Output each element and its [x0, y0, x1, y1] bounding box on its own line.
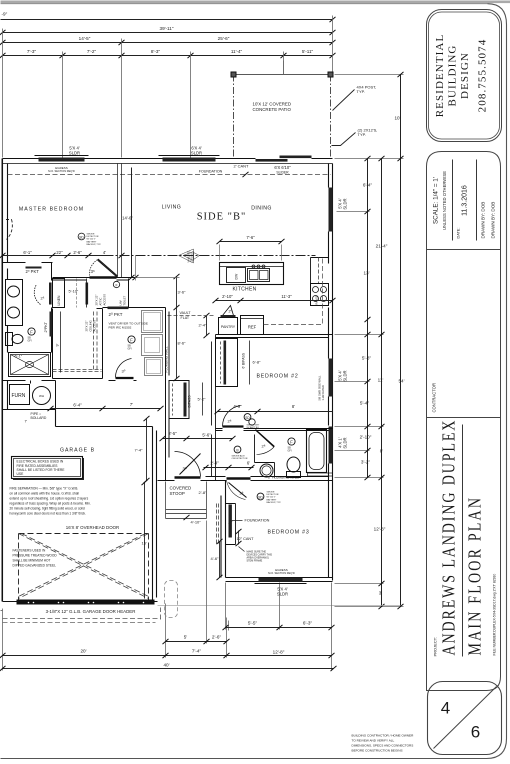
- svg-text:5'-10": 5'-10": [69, 290, 79, 294]
- svg-text:ACCESS: ACCESS: [93, 320, 97, 332]
- svg-text:2'-10": 2'-10": [360, 435, 372, 440]
- extension for 3'-6: [135, 277, 180, 279]
- svg-text:WH: WH: [39, 394, 44, 398]
- dryer: [142, 335, 163, 356]
- svg-text:CM DETECTOR: CM DETECTOR: [232, 458, 248, 460]
- svg-text:M.O. SECTION REQ'D: M.O. SECTION REQ'D: [48, 169, 75, 173]
- svg-text:6'-1": 6'-1": [15, 355, 23, 359]
- info/project rounded box: [427, 152, 501, 691]
- svg-text:VAULT: VAULT: [180, 311, 192, 315]
- wall laundry north: [103, 307, 166, 309]
- bedroom2 closet return walls: [216, 339, 238, 387]
- sink 1: [8, 286, 20, 297]
- dim 9' vertical: [60, 312, 62, 373]
- svg-text:3⁶: 3⁶: [91, 269, 95, 274]
- svg-text:BACKUP, TYP.: BACKUP, TYP.: [87, 243, 102, 246]
- svg-text:BEFORE CONSTRUCTION BEGINS: BEFORE CONSTRUCTION BEGINS: [352, 749, 403, 753]
- svg-text:2'-8": 2'-8": [199, 490, 208, 495]
- svg-text:GARAGE B: GARAGE B: [60, 448, 95, 454]
- wall bedroom3 west jog: [221, 481, 226, 578]
- svg-text:7'-4": 7'-4": [192, 649, 202, 654]
- patio edge dashdot right: [330, 75, 332, 159]
- window 5x4 SLDR bedroom2 east: [329, 359, 333, 397]
- svg-text:6'-3": 6'-3": [303, 621, 313, 626]
- patio edge top: [234, 74, 331, 76]
- sheet number diagonal: [434, 687, 497, 749]
- svg-text:54': 54': [399, 379, 405, 384]
- svg-text:BUILDING: BUILDING: [447, 45, 459, 107]
- patio edge dashdot left: [233, 75, 235, 159]
- svg-text:6'-8": 6'-8": [253, 360, 262, 365]
- dim line garage north: [51, 408, 161, 410]
- svg-text:BATTERY: BATTERY: [267, 498, 277, 501]
- svg-text:FILE NUMBER:DUPLEX-5X4-3SD17.d: FILE NUMBER:DUPLEX-5X4-3SD17.dwg 2'X7' 8…: [493, 574, 497, 656]
- upper cab dashed L: [264, 259, 323, 325]
- svg-text:SLDR: SLDR: [69, 151, 80, 156]
- svg-text:5'-11": 5'-11": [302, 49, 314, 54]
- garage door side dashed: [148, 534, 150, 600]
- svg-text:USE: USE: [17, 472, 25, 476]
- wall stoop front: [158, 480, 206, 482]
- master closet walls: [53, 309, 103, 379]
- garage door X brace: [19, 534, 149, 599]
- svg-text:2⁶: 2⁶: [41, 296, 45, 301]
- svg-text:20 minute self-closing, tight: 20 minute self-closing, tight fitting so…: [10, 507, 85, 511]
- svg-text:BIPASS: BIPASS: [188, 395, 192, 408]
- svg-text:3⁰: 3⁰: [183, 467, 187, 472]
- svg-text:SLDR: SLDR: [343, 438, 348, 449]
- svg-text:2'-5": 2'-5": [168, 431, 177, 436]
- svg-text:MASTER BEDROOM: MASTER BEDROOM: [19, 207, 84, 213]
- svg-text:BOLLARD: BOLLARD: [31, 416, 47, 420]
- svg-text:PROJECT:: PROJECT:: [433, 637, 438, 656]
- svg-text:20': 20': [81, 649, 87, 654]
- dim 8': [258, 411, 333, 413]
- svg-text:REF: REF: [248, 325, 257, 330]
- svg-text:SMOKE ALM: SMOKE ALM: [232, 455, 245, 458]
- wall bedroom2 north: [216, 335, 333, 338]
- svg-text:5'-5": 5'-5": [248, 621, 258, 626]
- patio post left: [231, 72, 236, 77]
- closet rods dashed: [94, 312, 98, 372]
- svg-text:21'-4": 21'-4": [376, 244, 388, 249]
- dim 5'-11 extension: [283, 61, 285, 75]
- review note: [352, 734, 415, 753]
- svg-text:honeycomb core steel doors not: honeycomb core steel doors not less than…: [10, 512, 87, 516]
- svg-text:11'-3": 11'-3": [281, 294, 292, 299]
- svg-text:DESIGN: DESIGN: [459, 52, 471, 99]
- svg-text:2'-4": 2'-4": [210, 461, 219, 466]
- svg-text:FOUNDATION: FOUNDATION: [245, 519, 270, 523]
- svg-text:6'-4": 6'-4": [363, 183, 373, 188]
- svg-text:3': 3': [379, 591, 383, 596]
- svg-text:22": 22": [56, 250, 63, 255]
- fan bath: [288, 438, 295, 445]
- svg-text:FLAT: FLAT: [181, 316, 190, 320]
- hall closet bipass: [169, 381, 189, 419]
- svg-text:2'-6": 2'-6": [73, 250, 82, 255]
- kitchen island: [220, 263, 284, 285]
- svg-text:6: 6: [471, 723, 480, 742]
- walls furn closet: [3, 381, 56, 410]
- svg-text:SCALE: 1/4" = 1': SCALE: 1/4" = 1': [433, 177, 440, 224]
- svg-text:3'-6": 3'-6": [178, 290, 187, 295]
- scale section divider lines: [452, 160, 454, 241]
- svg-text:2⁸: 2⁸: [262, 444, 266, 449]
- svg-text:2' CANT: 2' CANT: [234, 164, 250, 169]
- foundation dashed below garage: [3, 618, 161, 620]
- dim 7'-6" island: [220, 241, 282, 243]
- svg-text:TOILET: TOILET: [123, 295, 127, 305]
- wall garage east: [153, 427, 157, 602]
- svg-text:12'-8": 12'-8": [374, 527, 386, 532]
- tub deck: [308, 473, 333, 476]
- svg-text:4'-6": 4'-6": [211, 556, 220, 561]
- pantry door bar: [221, 315, 236, 317]
- wall hall east x215: [212, 335, 216, 481]
- pocket 2-0PKT vertical closet: [50, 312, 53, 337]
- fan symbol: [128, 336, 135, 343]
- svg-text:6' BIPASS: 6' BIPASS: [242, 352, 246, 368]
- svg-text:5': 5': [184, 635, 188, 640]
- svg-text:B: B: [236, 449, 239, 453]
- master door leaf: [98, 259, 118, 277]
- svg-text:TYP.: TYP.: [357, 89, 365, 94]
- svg-text:7'-3": 7'-3": [27, 49, 37, 54]
- svg-text:BATTERY: BATTERY: [87, 240, 97, 243]
- svg-text:DATE:: DATE:: [457, 228, 461, 239]
- svg-text:CEILING: CEILING: [190, 252, 194, 262]
- svg-text:DINING: DINING: [251, 206, 272, 212]
- svg-text:RANGE: RANGE: [315, 295, 319, 304]
- svg-text:DIPPED GALVANIZED STEEL: DIPPED GALVANIZED STEEL: [13, 564, 57, 568]
- lav toilet closet: [128, 279, 130, 308]
- door arc left wall: [6, 220, 12, 240]
- svg-text:DIMENSIONS, SPECS AND CONNECTO: DIMENSIONS, SPECS AND CONNECTORS: [352, 744, 414, 748]
- note fasteners: [13, 549, 58, 568]
- wall bedroom2 south: [216, 429, 333, 431]
- door bedroom2: [223, 425, 244, 427]
- svg-text:12'-8": 12'-8": [273, 650, 285, 655]
- stoop footing dashed: [165, 581, 178, 618]
- svg-text:10': 10': [395, 116, 401, 121]
- svg-text:10'X 12' COVERED: 10'X 12' COVERED: [253, 102, 292, 107]
- svg-text:on all common walls with the h: on all common walls with the house. G.W.…: [10, 492, 80, 496]
- svg-text:1-HR RATED: 1-HR RATED: [321, 385, 325, 400]
- svg-text:SHALL BE LISTED FOR THERE: SHALL BE LISTED FOR THERE: [17, 468, 66, 472]
- svg-text:6" PLUMBING WALL: 6" PLUMBING WALL: [268, 476, 299, 480]
- range: [311, 284, 329, 306]
- fan symbol F: [28, 328, 35, 335]
- furn box: [10, 385, 30, 405]
- svg-text:extend up to roof sheathing. L: extend up to roof sheathing. Lid option …: [10, 497, 89, 501]
- logo text: [434, 34, 489, 118]
- svg-text:12" CANT: 12" CANT: [237, 537, 255, 541]
- svg-text:SLDR: SLDR: [191, 151, 202, 156]
- svg-text:6': 6': [247, 461, 250, 466]
- stoop outline: [166, 482, 207, 519]
- dim 2'-5" / 5'-6": [163, 438, 233, 440]
- pantry box: [219, 318, 238, 335]
- garage door header bar: [17, 600, 155, 605]
- sink laundry: [145, 358, 163, 376]
- dim 3'-6" vertical: [176, 277, 178, 308]
- dim line x381: [381, 159, 383, 607]
- wall left exterior west: [3, 159, 8, 602]
- wall bath east x51: [51, 263, 53, 353]
- svg-text:SD: SD: [258, 496, 263, 500]
- svg-text:2⁸: 2⁸: [240, 491, 244, 496]
- dishwasher: [227, 268, 246, 283]
- svg-text:2'-10": 2'-10": [222, 294, 233, 299]
- svg-text:25'-6": 25'-6": [218, 36, 230, 41]
- upper cabinets dashed: [318, 258, 320, 284]
- svg-text:7'-4": 7'-4": [135, 448, 144, 453]
- wall bedroom3 south: [226, 578, 333, 582]
- dim 4'-9": [218, 411, 258, 413]
- wall master east: [118, 164, 122, 278]
- extension rows: [335, 75, 404, 607]
- svg-text:6'-1": 6'-1": [23, 250, 32, 255]
- svg-text:14'-5": 14'-5": [79, 36, 91, 41]
- svg-text:3'-2": 3'-2": [361, 460, 371, 465]
- svg-text:LINEN: LINEN: [57, 295, 61, 306]
- front door 3-0: [175, 476, 201, 478]
- svg-text:STOOP: STOOP: [170, 491, 185, 496]
- note make sure: [247, 551, 273, 563]
- dim 4'-6": [219, 542, 221, 578]
- svg-text:2'-4": 2'-4": [199, 323, 208, 328]
- door bath 2-8: [256, 430, 275, 448]
- dim line master south: [3, 255, 111, 257]
- wall laundry east / plumbing: [166, 308, 170, 481]
- tub: [307, 430, 327, 473]
- door bedroom3 swing: [227, 481, 246, 500]
- svg-text:DW: DW: [235, 273, 239, 279]
- svg-text:FURN: FURN: [12, 393, 26, 399]
- pantry door triangle: [223, 306, 234, 316]
- svg-text:40': 40': [164, 663, 170, 668]
- smoke detector master: [78, 233, 85, 240]
- sheet top grey band: [1, 1, 510, 4]
- svg-text:TO REVIEW AND VERIFY ALL: TO REVIEW AND VERIFY ALL: [352, 739, 395, 743]
- svg-text:16'X 8' OVERHEAD DOOR: 16'X 8' OVERHEAD DOOR: [66, 525, 119, 530]
- svg-text:COVERED: COVERED: [170, 486, 192, 491]
- svg-text:BEDROOM #3: BEDROOM #3: [267, 530, 309, 536]
- dim 2'-4" pantry: [206, 316, 208, 336]
- sheet number box: [428, 682, 502, 755]
- island sink: [248, 269, 270, 282]
- bath toilet: [287, 457, 300, 472]
- svg-text:RESIDENTIAL: RESIDENTIAL: [434, 34, 446, 118]
- svg-text:MAIN FLOOR PLAN: MAIN FLOOR PLAN: [465, 496, 485, 656]
- dim 2'-4" / 6' entry: [204, 467, 254, 469]
- svg-text:SLDR: SLDR: [343, 199, 348, 210]
- smoke detector B living: [234, 446, 241, 453]
- svg-text:BACKUP, TYP.: BACKUP, TYP.: [267, 501, 282, 504]
- svg-text:7': 7': [25, 420, 28, 424]
- door bedroom3 entry bar: [227, 477, 251, 479]
- wall top exterior north: [3, 158, 333, 160]
- wall right exterior east: [329, 164, 333, 581]
- svg-text:208.755.5074: 208.755.5074: [477, 39, 489, 113]
- kitchen counter east: [311, 258, 329, 284]
- dim 7'-4" vertical: [146, 419, 148, 481]
- note box electrical: [12, 457, 83, 479]
- svg-text:GFI: GFI: [28, 340, 32, 343]
- dim 8'-6" vertical: [176, 308, 178, 379]
- master door arc: [89, 260, 97, 276]
- svg-text:8'-3": 8'-3": [151, 49, 161, 54]
- svg-text:PANTRY: PANTRY: [221, 325, 236, 329]
- svg-text:TYP.: TYP.: [358, 132, 366, 137]
- svg-text:15': 15': [142, 541, 147, 546]
- svg-text:F: F: [30, 330, 33, 335]
- svg-text:4': 4': [103, 250, 106, 255]
- svg-text:DRAWN BY: DOB: DRAWN BY: DOB: [491, 202, 496, 239]
- smoke detector SD: [244, 414, 251, 421]
- dim line x400: [400, 75, 402, 607]
- window 6x4 SLDR living: [163, 158, 216, 162]
- window 4x1 SLDR bath east: [329, 427, 333, 464]
- dim 15' garage: [144, 483, 146, 599]
- svg-text:4'-10": 4'-10": [191, 520, 202, 525]
- window 5x4 SLDR master: [39, 158, 85, 162]
- svg-text:F: F: [130, 338, 133, 343]
- note box shadow: [13, 458, 84, 480]
- bipass closet bedroom2: [216, 339, 238, 387]
- wall front entry south: [206, 477, 333, 481]
- svg-text:F: F: [115, 284, 117, 288]
- svg-text:4'-9": 4'-9": [233, 404, 242, 409]
- svg-text:39'-11": 39'-11": [160, 26, 174, 31]
- window 5x4 SLDR bedroom3 south: [259, 578, 303, 582]
- svg-text:3-1/8"X 12" G.L.B. GARAGE DOOR: 3-1/8"X 12" G.L.B. GARAGE DOOR HEADER: [46, 609, 136, 614]
- dim line x367: [367, 159, 369, 478]
- garage door dashed top: [19, 533, 149, 535]
- svg-text:8': 8': [292, 404, 295, 409]
- svg-text:4: 4: [441, 699, 450, 718]
- svg-text:GFI: GFI: [288, 450, 292, 453]
- svg-text:FIRE SEPARATION — Min. 5/8" ty: FIRE SEPARATION — Min. 5/8" type "X" G.W…: [10, 487, 79, 491]
- closet shelf dashed: [53, 370, 102, 372]
- master bath vanity: [6, 280, 23, 326]
- ref box: [241, 316, 264, 335]
- svg-text:SHALL BE MINIMUM HOT: SHALL BE MINIMUM HOT: [13, 559, 51, 563]
- svg-text:-9": -9": [2, 12, 8, 17]
- svg-text:5'-4": 5'-4": [360, 401, 370, 406]
- svg-text:LIVING: LIVING: [162, 205, 181, 211]
- window 5x4 SLDR dining east: [329, 188, 333, 232]
- foundation dashed stoop: [216, 504, 218, 546]
- svg-text:2⁶PKT: 2⁶PKT: [44, 321, 48, 332]
- svg-text:3⁰: 3⁰: [122, 369, 126, 374]
- wall hall south y380: [109, 380, 137, 382]
- door 3-0 garage entry: [116, 377, 134, 379]
- master door 3-6 bar: [90, 276, 117, 279]
- svg-text:SD: SD: [79, 236, 84, 240]
- svg-text:PLUMBING WALL: PLUMBING WALL: [165, 346, 169, 372]
- svg-text:PER IRC M1502: PER IRC M1502: [109, 326, 132, 330]
- svg-text:KITCHEN: KITCHEN: [232, 287, 256, 293]
- door 2-6 master bath arc: [34, 285, 40, 305]
- svg-text:2'-6": 2'-6": [212, 635, 222, 640]
- svg-text:PRESSURE TREATED WOOD: PRESSURE TREATED WOOD: [13, 554, 58, 558]
- contractor divider: [427, 417, 501, 419]
- water heater: [33, 387, 51, 405]
- dim 14'-6" vertical living: [131, 168, 133, 278]
- sink 2: [8, 307, 20, 318]
- svg-text:M.O. SECTION REQ'D: M.O. SECTION REQ'D: [268, 571, 295, 575]
- stoop steps: [166, 510, 207, 519]
- wall bath west x254: [255, 435, 275, 478]
- svg-text:8': 8': [380, 449, 384, 454]
- svg-text:5'-2": 5'-2": [198, 397, 207, 402]
- patio slider door 6x6'10: [256, 159, 288, 162]
- svg-text:DRAWN BY: DOB: DRAWN BY: DOB: [481, 202, 486, 239]
- svg-text:6'X 6'10": 6'X 6'10": [274, 165, 291, 170]
- extension lines: [3, 16, 333, 158]
- svg-text:14'-6": 14'-6": [122, 216, 133, 221]
- ceiling dashdot line: [56, 255, 316, 257]
- bath sink: [260, 464, 273, 477]
- smoke detector bedroom3: [257, 493, 264, 500]
- svg-text:5/8 GWB SIDE WALL: 5/8 GWB SIDE WALL: [318, 375, 322, 401]
- foundation dashed left: [1, 610, 3, 612]
- svg-text:ANDREWS LANDING DUPLEX: ANDREWS LANDING DUPLEX: [439, 419, 459, 656]
- svg-text:13': 13': [364, 271, 370, 276]
- svg-text:2⁸: 2⁸: [228, 419, 232, 424]
- svg-text:SIDE "B": SIDE "B": [197, 212, 247, 223]
- wall garage north jog: [3, 410, 153, 427]
- svg-text:FASTENERS USED IN: FASTENERS USED IN: [13, 549, 46, 553]
- pocket door bar: [26, 267, 42, 269]
- svg-text:W/ BATT BU: W/ BATT BU: [247, 426, 260, 429]
- svg-text:SLDR: SLDR: [277, 592, 288, 597]
- wall top interior line: [3, 163, 333, 165]
- svg-text:SD: SD: [245, 416, 250, 420]
- svg-text:F: F: [290, 440, 293, 445]
- wall garage south / door opening: [3, 601, 158, 603]
- svg-text:regardless of truss spacing. W: regardless of truss spacing. Wrap all po…: [10, 502, 91, 506]
- svg-text:SLDR: SLDR: [343, 371, 348, 382]
- svg-text:ELECTRICAL BOXES USED IN: ELECTRICAL BOXES USED IN: [17, 460, 64, 464]
- shower: [9, 353, 51, 377]
- svg-text:11'-4": 11'-4": [231, 49, 243, 54]
- project divider line: [462, 425, 464, 657]
- grade line front: [158, 605, 401, 607]
- patio post right: [328, 72, 333, 77]
- svg-text:CONCRETE PATIO: CONCRETE PATIO: [253, 107, 292, 112]
- svg-text:STEM FRAME: STEM FRAME: [247, 560, 263, 563]
- svg-text:BEDROOM #2: BEDROOM #2: [256, 374, 298, 380]
- pocket door laundry: [108, 307, 129, 310]
- washer: [142, 311, 163, 333]
- wall master south: [3, 263, 137, 281]
- svg-text:2⁰ PKT: 2⁰ PKT: [109, 312, 123, 317]
- pocket vertical attic wall: [86, 283, 89, 305]
- svg-text:2⁶: 2⁶: [229, 310, 233, 314]
- vaulted ceiling marker: [179, 249, 200, 263]
- svg-text:CONTRACTOR: CONTRACTOR: [432, 383, 437, 412]
- closet bedroom3: [226, 504, 236, 545]
- toilet master: [6, 333, 13, 346]
- svg-text:6'-4": 6'-4": [73, 403, 82, 408]
- logo box outer: [427, 10, 502, 142]
- svg-text:UNLESS NOTED OTHERWISE: UNLESS NOTED OTHERWISE: [442, 171, 447, 230]
- note fire separation: [10, 487, 91, 516]
- svg-text:9': 9': [56, 343, 60, 346]
